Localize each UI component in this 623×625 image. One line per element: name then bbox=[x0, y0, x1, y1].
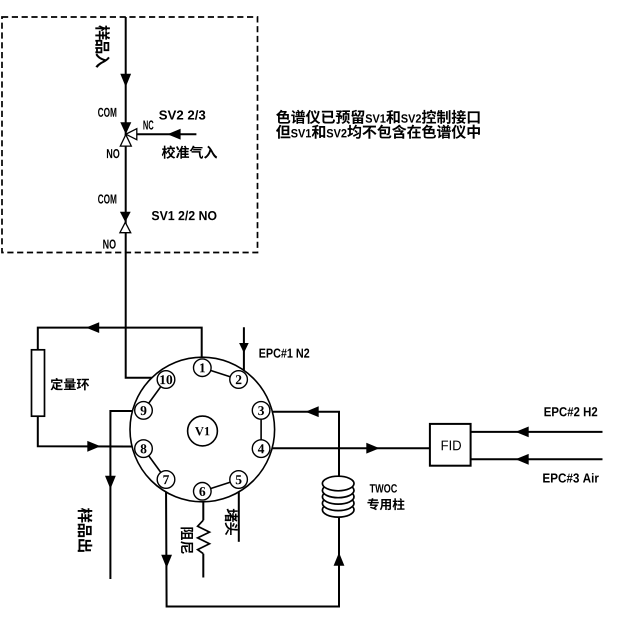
label TWOC bbox=[370, 484, 375, 492]
wire: calibration gas horizontal into SV2 NC bbox=[137, 133, 197, 135]
port 9 bbox=[135, 402, 153, 420]
solenoid valve SV1 (2-way) bbox=[120, 212, 131, 233]
valve center circle V1 bbox=[188, 416, 218, 446]
port 8 bbox=[135, 440, 153, 458]
label 样品入 (sample in, rotated) bbox=[95, 25, 110, 67]
wire: below restrictor bbox=[202, 554, 204, 578]
port 7 bbox=[157, 471, 175, 489]
port 1 bbox=[194, 359, 212, 377]
label COM (SV2) bbox=[98, 108, 103, 117]
wire: port 7 down, bottom run, up through column bbox=[166, 480, 339, 607]
arrow: port7 down bbox=[161, 555, 172, 568]
port 2 bbox=[230, 371, 248, 389]
wire: port 4 to FID bbox=[261, 447, 430, 449]
arrow: column up bbox=[334, 553, 345, 566]
arrow: EPC#2 left bbox=[516, 427, 529, 438]
rotor channel chords bbox=[144, 368, 262, 492]
arrow: EPC#1 down bbox=[239, 343, 249, 353]
port 3 bbox=[252, 402, 270, 420]
note line 2 bbox=[276, 125, 290, 139]
sample loop (定量环) body bbox=[32, 350, 45, 416]
label 校准气入 (calibration gas in) bbox=[162, 145, 176, 158]
port 5 bbox=[230, 471, 248, 489]
10-port valve V1 stator circle bbox=[130, 357, 275, 502]
label SV1 2/2 NO bbox=[152, 211, 159, 220]
wire: port 5 plugged stub bbox=[238, 480, 240, 542]
note line 1 bbox=[276, 110, 290, 124]
solenoid valve SV2 (3-way) bbox=[120, 122, 137, 146]
label EPC#1 N2 bbox=[259, 349, 265, 358]
wire: loop top line from port1 bbox=[38, 328, 202, 368]
label EPC#3 Air bbox=[543, 474, 550, 483]
label COM (SV1) bbox=[98, 194, 103, 203]
TWOC column coil bbox=[322, 476, 354, 517]
arrow: port3 line left bbox=[306, 406, 319, 417]
arrow: port4 line right bbox=[366, 443, 379, 454]
wire: port 6 down to restrictor bbox=[202, 491, 204, 520]
wire: loop bottom to port 8 bbox=[38, 416, 144, 446]
label SV2 2/3 bbox=[159, 110, 167, 119]
dashed enclosure box bbox=[2, 17, 258, 253]
wire: port 9 to sample out bbox=[110, 411, 143, 579]
arrow: sample out down bbox=[105, 476, 116, 489]
label NO (SV2) bbox=[107, 149, 112, 158]
wire: port 3 right then down to column bbox=[261, 412, 339, 477]
label 堵头 (plug, rotated) bbox=[225, 509, 238, 536]
label 专用柱 (dedicated column) bbox=[367, 498, 378, 510]
wire: sample-in main vertical line bbox=[126, 17, 166, 378]
label EPC#2 H2 bbox=[544, 407, 550, 416]
label 样品出 (sample out, rotated) bbox=[78, 508, 93, 552]
label 定量环 (sample loop) bbox=[51, 378, 63, 390]
wire: EPC#1 N2 down to port 2 bbox=[239, 327, 244, 379]
wire: FID to EPC#2 H2 bbox=[471, 431, 603, 433]
port 6 bbox=[194, 483, 212, 501]
arrow: calibration gas left bbox=[167, 129, 180, 140]
arrow: EPC#3 left bbox=[516, 454, 529, 465]
label NO (SV1) bbox=[103, 240, 108, 249]
arrow: sample in down bbox=[120, 74, 131, 87]
restrictor zigzag bbox=[198, 520, 210, 554]
wire: FID to EPC#3 Air bbox=[471, 458, 603, 460]
label NC bbox=[143, 121, 147, 130]
arrow: loop top left bbox=[86, 322, 99, 333]
port 10 bbox=[157, 371, 175, 389]
label 阻尼 (restrictor, rotated) bbox=[181, 527, 194, 553]
FID detector box bbox=[430, 424, 471, 466]
arrow: loop bottom right bbox=[87, 441, 100, 452]
port 4 bbox=[252, 440, 270, 458]
